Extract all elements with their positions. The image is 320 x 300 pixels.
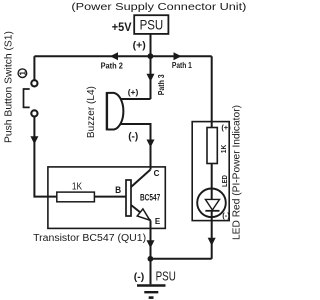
arrow down below switch	[30, 136, 38, 144]
svg-text:B: B	[115, 185, 121, 196]
switch S1 actuator bracket	[24, 89, 30, 107]
wire buzzer plus to path3	[121, 98, 151, 100]
arrow Path 2 left	[110, 52, 118, 60]
label pin 1 circled (rotated)	[18, 69, 27, 78]
transistor Q1 emitter line	[131, 205, 151, 221]
wire switch drop from top rail	[33, 56, 35, 80]
svg-text:1K: 1K	[72, 181, 82, 192]
svg-text:Push Button Switch (S1): Push Button Switch (S1)	[4, 31, 15, 143]
wire emitter down to bottom junction	[150, 221, 152, 259]
wire buzzer minus right then down to transistor box	[121, 124, 151, 170]
svg-text:LED: LED	[222, 175, 229, 187]
svg-text:(-): (-)	[134, 271, 145, 283]
arrow down below transistor	[147, 240, 155, 248]
svg-text:(-): (-)	[222, 211, 230, 220]
svg-text:Transistor BC547 (QU1): Transistor BC547 (QU1)	[33, 233, 146, 244]
node junction bottom	[148, 256, 154, 262]
svg-text:BC547: BC547	[140, 193, 160, 204]
arrow down below LED box	[208, 238, 216, 246]
transistor Q1 emitter arrow (open)	[137, 209, 150, 220]
transistor Q1 collector line	[131, 170, 150, 187]
svg-text:(+): (+)	[128, 87, 139, 97]
wire resistor to LED	[211, 164, 213, 200]
svg-text:+5V: +5V	[112, 20, 132, 34]
switch S1 top terminal	[31, 80, 37, 86]
wire top horizontal right (Path 1)	[151, 55, 212, 57]
svg-text:(+): (+)	[221, 123, 231, 132]
svg-text:Path 1: Path 1	[172, 61, 192, 70]
wire resistor to base	[94, 196, 126, 198]
arrow down above transistor	[147, 140, 155, 148]
svg-text:1K: 1K	[221, 145, 228, 154]
svg-text:E: E	[155, 217, 161, 226]
resistor 1K (base)	[57, 181, 95, 202]
arrow Path 3 down	[147, 74, 155, 82]
svg-text:1: 1	[19, 71, 28, 76]
svg-text:LED Red (PI-Power Indicator): LED Red (PI-Power Indicator)	[232, 105, 243, 240]
node junction top	[148, 53, 154, 59]
wire Path 3 vertical junction to buzzer plus	[150, 56, 152, 99]
wire junction to ground	[150, 259, 152, 285]
wire PSU to junction	[150, 34, 152, 56]
svg-text:PSU: PSU	[156, 269, 176, 283]
resistor 1K (LED, vertical)	[207, 128, 228, 164]
svg-text:Buzzer (L4): Buzzer (L4)	[86, 86, 97, 138]
transistor Q1 base bar	[126, 180, 131, 216]
LED D1 symbol	[197, 189, 226, 218]
svg-text:C: C	[154, 169, 160, 178]
svg-text:PSU: PSU	[140, 17, 164, 32]
svg-text:(-): (-)	[128, 132, 138, 143]
wire bottom rail horizontal	[151, 258, 212, 260]
ground	[137, 286, 166, 298]
wire top rail down to LED box	[211, 56, 213, 128]
wire switch to resistor (down then right)	[34, 117, 56, 197]
transistor QU1 outer box	[48, 167, 165, 229]
LED unit outer box	[192, 122, 229, 221]
wire LED down to bottom rail	[211, 211, 213, 259]
switch S1 bottom terminal	[31, 110, 37, 116]
buzzer L4 body	[107, 92, 123, 130]
svg-text:Path 3: Path 3	[157, 74, 166, 95]
svg-text:Path 2: Path 2	[101, 62, 124, 71]
svg-text:(+): (+)	[133, 40, 146, 52]
PSU box (top)	[134, 15, 168, 34]
arrow Path 1 right	[174, 52, 182, 60]
wire top horizontal left (Path 2)	[34, 55, 150, 57]
svg-text:(Power Supply Connector Unit): (Power Supply Connector Unit)	[71, 2, 246, 13]
